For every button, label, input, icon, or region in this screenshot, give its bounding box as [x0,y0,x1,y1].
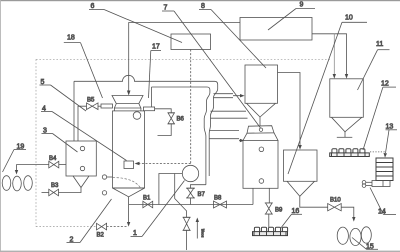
svg-text:6: 6 [91,3,95,10]
duct branch to cyclone upper [214,94,242,98]
right flange nozzle [143,107,154,111]
air inlet arrow [196,218,199,239]
svg-text:8: 8 [201,3,205,10]
svg-text:17: 17 [152,44,160,51]
heat exchanger U9 box [240,18,312,41]
left flange nozzle [101,104,113,108]
label 15 [352,238,378,251]
valve B4 [49,161,59,168]
arrow into vessel neck [240,139,245,142]
svg-text:B1: B1 [143,196,151,202]
arrow at burner box [135,162,140,166]
hood inner wall / duct inner [152,87,210,90]
wire: B10 to product [341,207,354,217]
label 17 [149,44,162,99]
duct branch to vessel 8 neck [209,131,241,141]
label 10 [288,15,367,175]
arrow into cyclone [240,94,245,97]
hopper skirt [114,104,140,108]
valve B5 [78,103,101,141]
furnace hood line [74,75,218,84]
drum 15b [350,228,361,245]
silo 13 [376,158,393,181]
furnace sight glass [133,112,141,120]
label 8 [199,3,266,68]
label 19 [3,144,27,173]
wire: second drop to tank 11 [333,34,335,75]
tank 11 funnel [332,117,362,132]
wire: tank3 left outlet [59,164,66,166]
burner port lower [102,191,106,195]
scan edge top [0,0,400,1]
feeder hopper (trapezoid bowl) [112,96,143,104]
tank 3 funnel [73,176,89,188]
arrows into tank 11 [333,74,336,79]
furnace body 2 [113,111,145,188]
svg-text:B5: B5 [87,98,95,104]
hood left downcomer to tank 3 [73,81,75,141]
tank 3 [66,141,96,176]
valve B10 [328,204,342,211]
svg-text:B6: B6 [177,117,185,123]
label 5 [40,79,87,111]
wire: main gas pipe top [129,23,240,91]
vessel 8 neck [247,126,274,134]
wire: pipe from U9 to tank 11 [312,34,347,75]
valve B1 [143,201,153,208]
wire: tank3 drain [59,188,82,193]
svg-text:11: 11 [376,41,383,48]
offgas duct outer wall [209,85,218,177]
stub wire port to furnace [107,176,113,178]
drum 15c [361,227,371,243]
signal branch to burner (dashed) [139,163,191,165]
wire: cyclone gas outlet [278,73,301,146]
wire: duct elbow to pump discharge [191,185,206,189]
valve B6 [155,109,175,136]
cyclone box 8 [245,65,278,103]
battery-limit boundary (dash-dot) [36,59,331,226]
arrow into silo [384,153,388,158]
vessel 8 shoulders [243,133,278,141]
svg-text:B4: B4 [49,156,57,162]
bag 19a [2,176,11,191]
wire: blowdown with arrow [128,205,130,223]
bag 19b [13,176,22,191]
wire: mixer drain [300,196,328,207]
hood right wall [151,87,153,107]
scan edge bottom [0,251,400,252]
svg-text:возд: возд [200,228,205,237]
cyclone cone [247,103,276,117]
offgas duct inner wall [204,90,210,185]
arrow to bags [15,170,18,175]
drum 15a [337,227,348,244]
wire: pump suction [159,174,183,205]
svg-text:B7: B7 [198,192,206,198]
label 11 [358,41,390,90]
label 6 [89,3,182,43]
silo discharge feeder 14 [362,181,390,188]
arrow into mixer 10 [298,145,302,150]
label 9 [268,2,315,31]
tank 11 slide gate [337,136,353,138]
valve B7 [186,188,195,204]
vessel 8 sight glass upper [259,147,264,152]
svg-text:10: 10 [345,15,353,22]
vessel 8 body [243,140,278,188]
svg-text:B9: B9 [275,208,283,214]
wire: drain leg hook [175,174,187,218]
svg-text:12: 12 [381,81,389,88]
furnace cone bottom [113,188,145,197]
drain valve [183,217,191,250]
conveyor 16 [253,227,288,235]
signal line controller to pump (dashed) [190,50,192,165]
label 18 [64,35,103,99]
arrow into feeder hopper [127,91,131,96]
pump 1 [182,165,198,181]
wire: furnace drain [128,197,130,205]
arrow to product drums [352,217,355,222]
tank 3 upper port [80,146,84,150]
label 2 [67,199,112,244]
svg-text:1: 1 [133,230,137,237]
label 13 [386,124,398,154]
svg-text:18: 18 [67,35,75,42]
wire: B3 outlet [42,192,49,194]
tank 3 lower port [80,166,84,170]
wire: vessel 8 right outlet [268,188,270,203]
svg-text:B8: B8 [214,196,222,202]
valve B9 [265,203,273,227]
conveyor 12 [330,149,370,157]
svg-text:9: 9 [300,2,304,9]
svg-text:B10: B10 [330,198,341,204]
svg-text:B3: B3 [51,183,59,189]
label 1 [131,181,185,238]
label 14 [370,188,396,216]
wire: cyclone dipleg [259,117,261,126]
neck vent circle [259,128,262,131]
wire: header riser to vessel 8 [252,188,254,204]
svg-text:7: 7 [164,5,168,12]
label 7 [162,5,261,129]
label 16 [281,208,303,229]
label 12 [363,81,396,151]
vessel 8 sight glass lower [259,179,264,184]
mixer 10 box [284,150,318,181]
scan edge left [0,0,2,252]
hopper neck [113,108,115,111]
wire: main bottom header [129,204,253,206]
label 3 [42,128,78,153]
svg-text:B2: B2 [97,233,105,239]
valve B2 (on dashed line) [107,226,127,228]
flame arc inside furnace [113,178,141,189]
tank 11 outlet stub [344,132,346,138]
label 4 [41,106,127,161]
duct branch to cyclone cone [211,111,248,118]
tank 11 [330,79,364,118]
wire: B4 to bags [17,165,49,171]
valve B8 [214,201,227,208]
controller U6 box [171,34,211,50]
burner box 4 [124,161,134,169]
burner port upper [102,175,106,179]
wire: conveyor to silo (dotted) [370,151,386,153]
valve B3 [49,189,59,196]
mixer funnel [287,181,315,196]
bag 19c [24,176,33,191]
